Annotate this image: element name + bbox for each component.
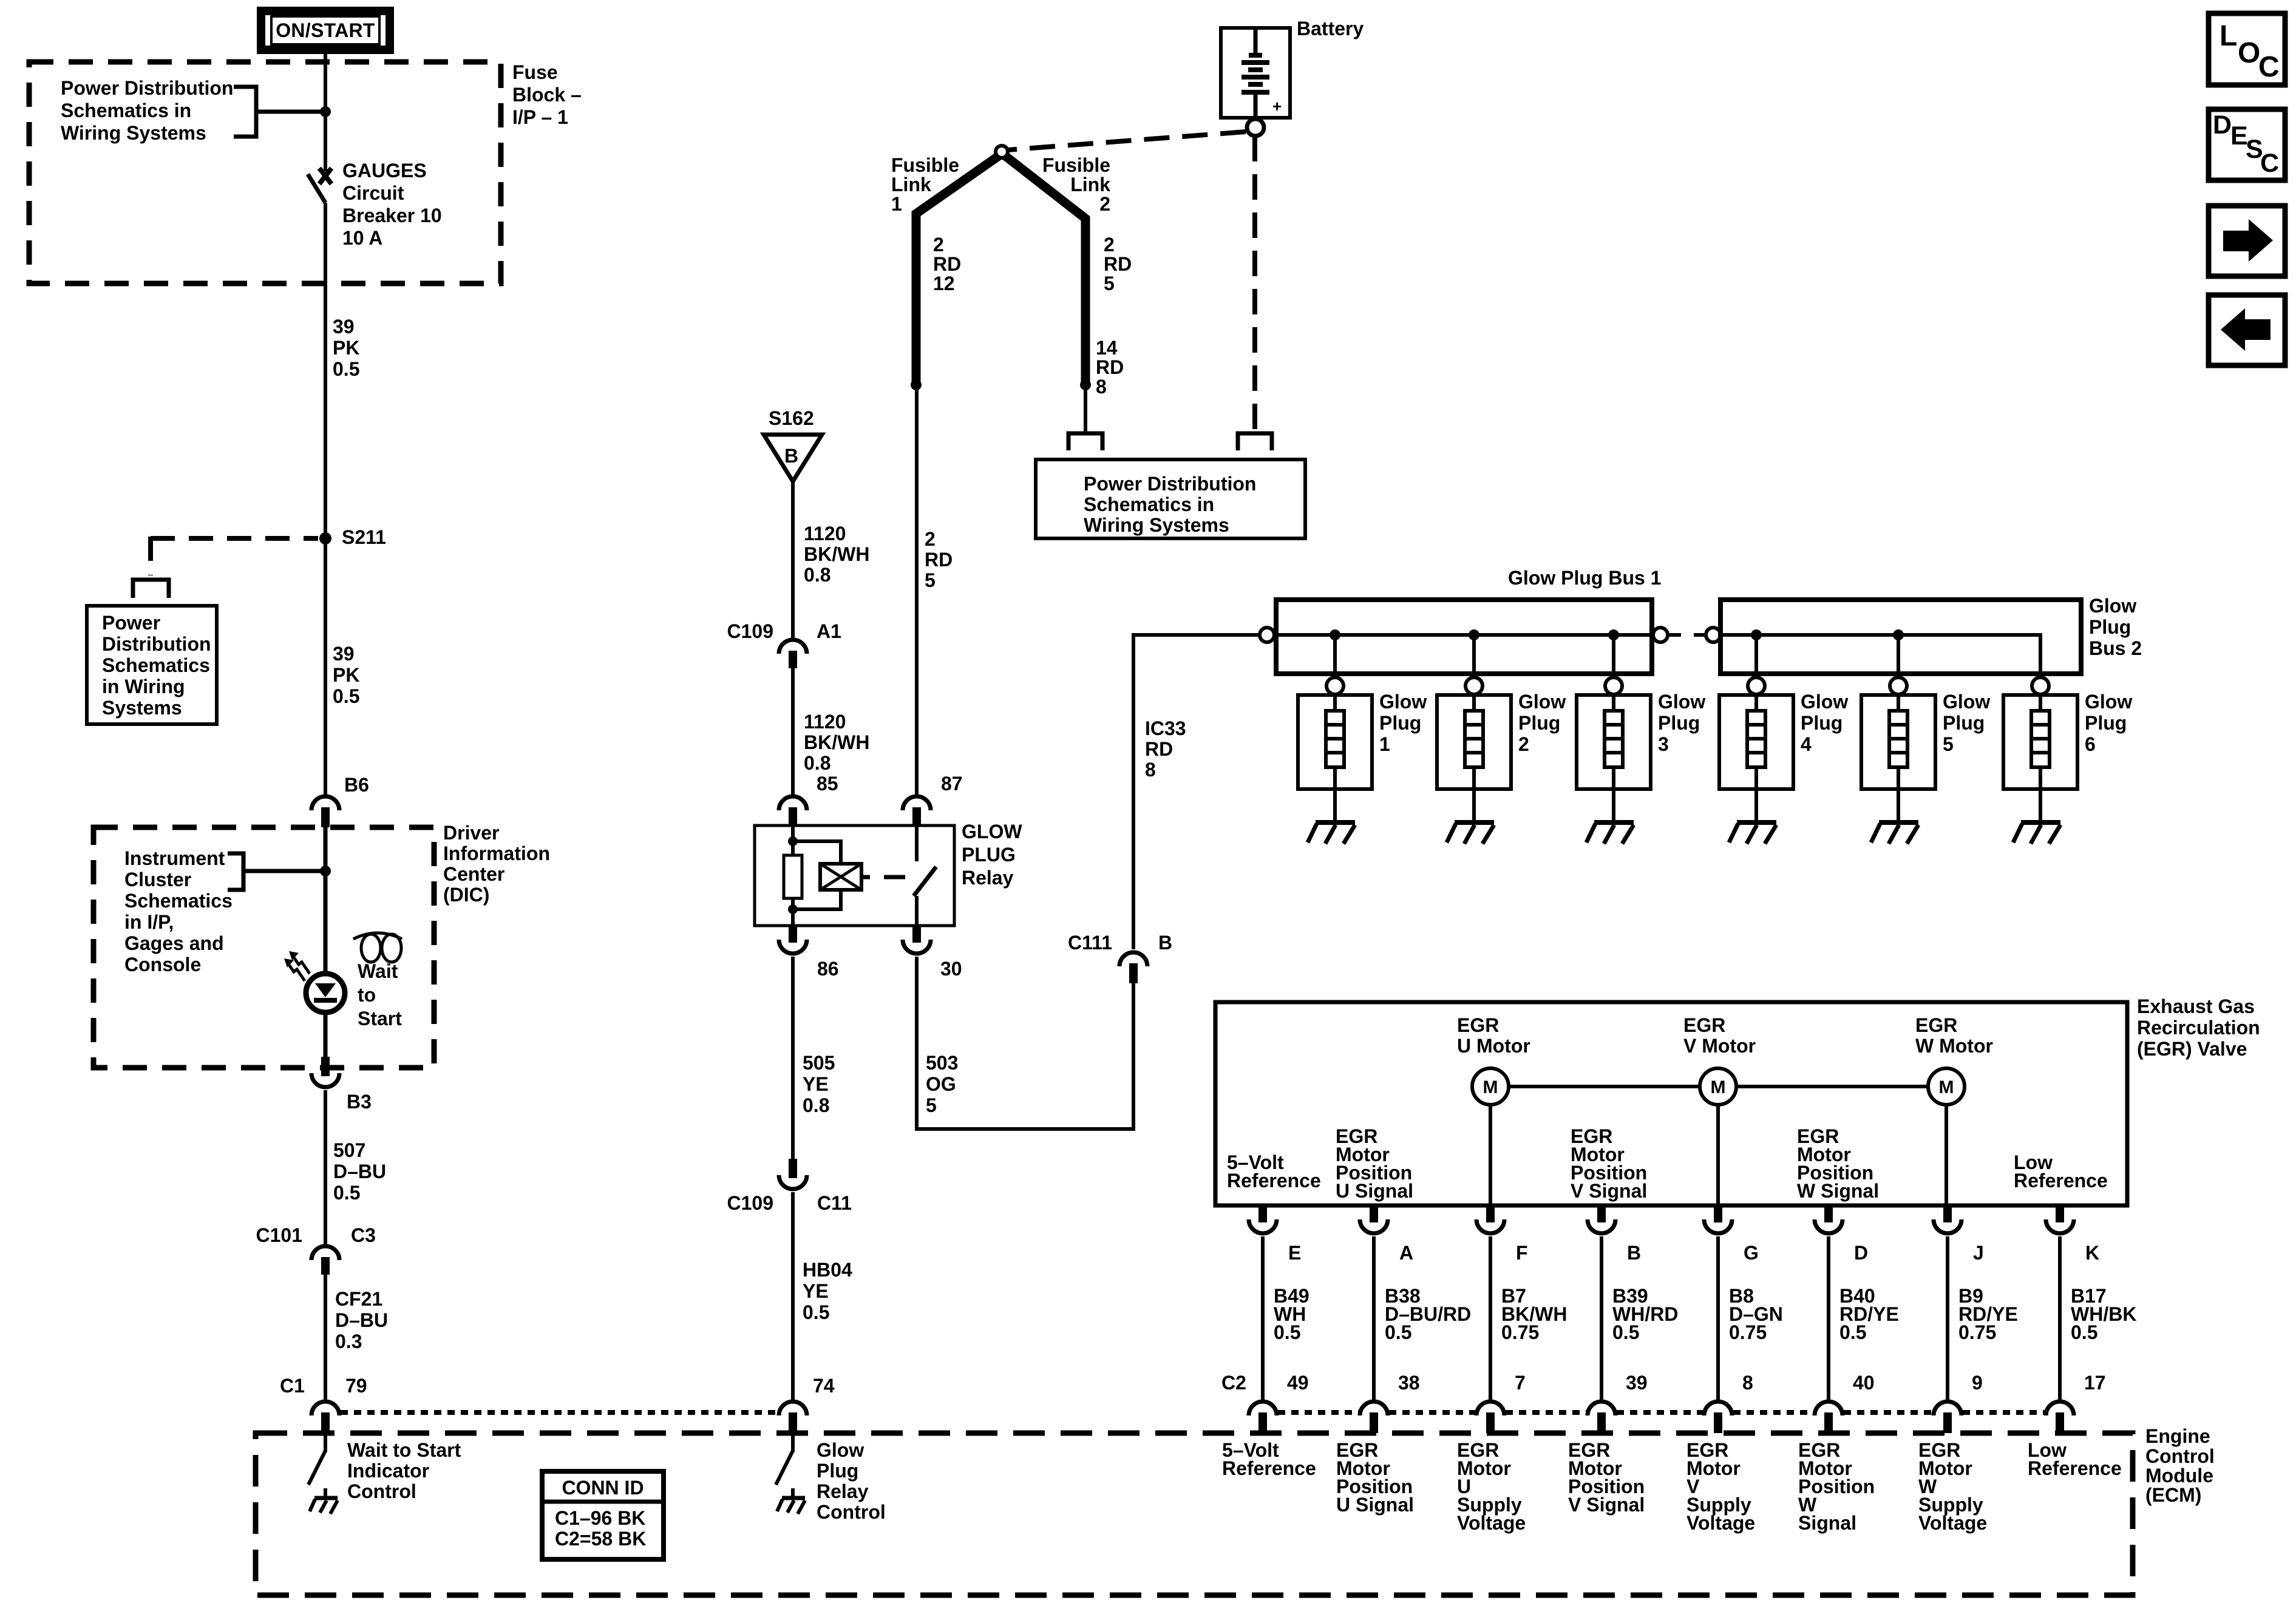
ground glow plug 2 (1447, 822, 1494, 844)
label EGR Motor Position W Signal (ECM) (1798, 1439, 1875, 1534)
wire glow plug 2 to ground (1472, 789, 1476, 821)
svg-text:EGR: EGR (1683, 1014, 1725, 1036)
svg-text:39: 39 (333, 643, 355, 665)
svg-text:Module: Module (2145, 1465, 2213, 1486)
svg-text:YE: YE (803, 1073, 829, 1095)
svg-text:V Signal: V Signal (1568, 1494, 1645, 1516)
connector B3 (DIC bottom pin) (311, 1057, 339, 1087)
svg-text:(EGR) Valve: (EGR) Valve (2137, 1038, 2247, 1060)
svg-text:Fusible: Fusible (891, 154, 959, 176)
svg-text:F: F (1516, 1242, 1528, 1264)
svg-text:D: D (2213, 110, 2232, 140)
label wire CF21 D-BU 0.3 (335, 1288, 388, 1352)
svg-text:YE: YE (803, 1280, 829, 1302)
label GLOW PLUG Relay (962, 821, 1022, 889)
svg-text:Control: Control (817, 1501, 886, 1523)
svg-text:V Signal: V Signal (1571, 1180, 1647, 1202)
svg-text:GAUGES: GAUGES (342, 160, 427, 181)
svg-text:Wait: Wait (358, 960, 398, 982)
EGR valve box (1215, 1002, 2127, 1205)
node bus 2 junction 4 (1751, 629, 1762, 640)
label Instrument Cluster Schematics in I/P, Gages and Console (124, 847, 233, 975)
node ON/START (ignition feed tag) (261, 11, 390, 50)
node bus 1 junction 3 (1608, 629, 1619, 640)
svg-text:E: E (1288, 1242, 1301, 1264)
svg-text:40: 40 (1853, 1372, 1875, 1394)
connector glow plug 6 ring (2032, 677, 2049, 694)
svg-text:Glow: Glow (2085, 691, 2132, 713)
svg-text:86: 86 (817, 958, 839, 980)
wire S162 to C109 (1120 BK/WH) (791, 480, 795, 638)
svg-text:B: B (1158, 932, 1172, 954)
connector ECM C2 pin 8 (1704, 1402, 1732, 1433)
svg-text:Glow: Glow (1801, 691, 1848, 713)
connector glow plug 2 ring (1466, 677, 1483, 694)
svg-text:(DIC): (DIC) (443, 884, 489, 906)
connector C101 / C3 (311, 1246, 339, 1275)
svg-text:4: 4 (1801, 733, 1812, 755)
wire EGR pin B to ECM (B39) (1600, 1236, 1603, 1400)
label wire B7 BK/WH 0.75 (1501, 1285, 1567, 1343)
label EGR Motor W Supply Voltage (ECM) (1918, 1439, 1987, 1534)
connector EGR pin D (1815, 1205, 1843, 1233)
svg-text:Schematics in: Schematics in (1084, 493, 1214, 515)
connector bus 1 right ring (1653, 628, 1668, 642)
label EGR Motor Position V Signal (EGR) (1571, 1125, 1647, 1202)
connector relay pin 86 (779, 924, 807, 954)
svg-text:C1: C1 (280, 1375, 305, 1397)
connector glow plug 1 ring (1326, 677, 1343, 694)
right arrow box (2209, 206, 2285, 276)
wire relay 86 to C109 C11 (505 YE) (791, 957, 795, 1159)
connector ECM C2 pin 17 (2046, 1402, 2074, 1433)
connector glow plug 5 ring (1890, 677, 1907, 694)
svg-text:Fuse: Fuse (512, 61, 558, 83)
svg-text:Link: Link (891, 174, 931, 195)
svg-text:Wiring Systems: Wiring Systems (1084, 514, 1229, 536)
svg-text:Wait to Start: Wait to Start (347, 1439, 461, 1461)
label wire 507 D-BU 0.5 (333, 1139, 386, 1204)
svg-text:M: M (1483, 1077, 1498, 1097)
label Fusible Link 2 (1042, 154, 1110, 215)
label wire 1120 BK/WH 0.8 (lower) (804, 711, 869, 774)
svg-text:0.8: 0.8 (804, 564, 830, 586)
switch Glow Plug Relay Control driver (776, 1433, 793, 1485)
svg-text:8: 8 (1145, 759, 1156, 781)
svg-text:17: 17 (2084, 1372, 2106, 1394)
relay K1 GLOW PLUG Relay box (755, 825, 954, 926)
svg-text:V Motor: V Motor (1683, 1035, 1756, 1057)
ground glow plug 5 (1871, 822, 1918, 844)
motor EGR U (1472, 1068, 1509, 1105)
fuse block dashed box (29, 62, 501, 283)
svg-text:0.8: 0.8 (803, 1094, 829, 1116)
switch Wait to Start Indicator Control driver (308, 1433, 325, 1485)
connector ECM C1 pin 74 (779, 1402, 807, 1433)
label Glow Plug 3 (1658, 691, 1705, 755)
wire breaker down to B6 (circuit 39 PK) (324, 203, 327, 795)
svg-text:I/P – 1: I/P – 1 (512, 106, 568, 128)
svg-text:Control: Control (2145, 1445, 2215, 1467)
svg-text:79: 79 (345, 1375, 367, 1397)
svg-text:PK: PK (333, 337, 359, 359)
svg-text:IC33: IC33 (1145, 717, 1186, 739)
wire dashed branch from S211 (151, 537, 318, 575)
wire relay actuating dash (884, 875, 905, 880)
connector ECM C2 pin 38 (1360, 1402, 1388, 1433)
svg-text:Block –: Block – (512, 84, 582, 106)
svg-text:PLUG: PLUG (962, 844, 1016, 866)
wire motor link (1490, 1085, 1946, 1088)
wire dashed battery feed down (1252, 136, 1257, 432)
svg-text:M: M (1939, 1077, 1954, 1097)
svg-text:0.5: 0.5 (333, 685, 359, 707)
circuit breaker GAUGES 10 A (308, 168, 331, 203)
svg-text:Plug: Plug (2085, 712, 2127, 734)
svg-text:B: B (784, 445, 798, 467)
svg-text:Gages and: Gages and (124, 932, 224, 954)
wire link2 to power distribution (14 RD 8) (1084, 385, 1087, 432)
svg-text:1120: 1120 (804, 711, 846, 733)
fusible link 1 (916, 156, 999, 383)
node relay junction top (788, 836, 798, 846)
label EGR Motor Position V Signal (ECM) (1568, 1439, 1645, 1516)
label EGR Motor Position U Signal (ECM) (1336, 1439, 1414, 1516)
connector EGR pin K (2046, 1205, 2074, 1233)
motor EGR W (1928, 1068, 1965, 1105)
svg-text:Cluster: Cluster (124, 869, 191, 890)
ground glow plug 4 (1729, 822, 1776, 844)
battery (1221, 28, 1290, 118)
svg-text:2: 2 (925, 528, 936, 550)
svg-text:503: 503 (926, 1052, 958, 1074)
svg-text:Reference: Reference (2014, 1170, 2108, 1192)
connector battery positive terminal ring (1247, 119, 1264, 136)
svg-text:Schematics in: Schematics in (61, 100, 191, 121)
wire bus drop to glow plug 2 (1472, 635, 1476, 677)
svg-text:Exhaust Gas: Exhaust Gas (2137, 995, 2255, 1017)
label wire B8 D&#8211;GN 0.75 (1729, 1285, 1783, 1343)
svg-text:+: + (1272, 97, 1282, 115)
wire IC33 RD to glow plug bus (1133, 635, 1258, 949)
label Glow Plug 4 (1801, 691, 1848, 755)
label EGR V Motor (1683, 1014, 1756, 1057)
svg-text:A1: A1 (817, 620, 841, 642)
svg-text:B3: B3 (347, 1091, 372, 1113)
motor EGR V (1700, 1068, 1736, 1105)
label wire HB04 YE 0.5 (803, 1259, 852, 1323)
glow plug 3 (1577, 694, 1651, 789)
svg-text:5: 5 (1943, 733, 1954, 755)
svg-text:0.5: 0.5 (333, 1182, 360, 1204)
svg-text:Plug: Plug (1518, 712, 1560, 734)
wire relay 30 down and over (503 OG) (917, 957, 1133, 1129)
svg-text:Glow: Glow (1379, 691, 1427, 713)
svg-text:in Wiring: in Wiring (102, 676, 185, 697)
svg-text:Schematics: Schematics (102, 654, 210, 676)
wire EGR pin F to ECM (B7) (1489, 1236, 1492, 1400)
svg-text:Glow: Glow (2089, 595, 2136, 617)
svg-text:C: C (2258, 51, 2280, 83)
glow plug bus 1 box (1276, 600, 1652, 674)
svg-text:74: 74 (813, 1375, 835, 1397)
svg-text:Center: Center (443, 863, 504, 885)
svg-text:Plug: Plug (1379, 712, 1421, 734)
svg-text:Indicator: Indicator (347, 1460, 429, 1482)
node bus 1 junction 2 (1469, 629, 1479, 640)
svg-text:8: 8 (1096, 376, 1107, 398)
label wire B9 RD/YE 0.75 (1958, 1285, 2018, 1343)
wire DIC internal upper (324, 827, 328, 974)
glow plug 1 (1298, 694, 1372, 789)
label EGR Motor Position W Signal (EGR) (1797, 1125, 1879, 1202)
node Driver Information Center dashed box (93, 827, 434, 1068)
wire bus link dashes (1668, 633, 1706, 637)
label wire B40 RD/YE 0.5 (1839, 1285, 1899, 1343)
wire glow plug 3 to ground (1612, 789, 1615, 821)
wire bus 2 (1720, 635, 2040, 674)
label wire 1120 BK/WH 0.8 (upper) (804, 523, 869, 586)
label Power Distribution Schematics in Wiring Systems (fuse block) (61, 77, 233, 144)
label wire 2 RD 12 (933, 234, 961, 294)
node splice link1 (911, 379, 922, 390)
label wire IC33 RD 8 (1145, 717, 1186, 781)
svg-text:RD: RD (1145, 738, 1173, 760)
wire EGR pin A to ECM (B38) (1372, 1236, 1376, 1400)
glow plug 4 (1719, 694, 1793, 789)
connector relay pin 30 (903, 924, 931, 954)
svg-text:2: 2 (933, 234, 944, 256)
svg-text:1120: 1120 (804, 523, 846, 544)
svg-text:Fusible: Fusible (1042, 154, 1110, 176)
node Power Distribution Schematics box (left) (87, 606, 217, 724)
svg-text:B: B (1627, 1242, 1641, 1264)
svg-text:30: 30 (940, 958, 962, 980)
svg-text:Relay: Relay (962, 867, 1014, 889)
label EGR Motor Position U Signal (EGR) (1336, 1125, 1413, 1202)
svg-text:W Signal: W Signal (1797, 1180, 1879, 1202)
svg-text:Plug: Plug (1658, 712, 1700, 734)
relay coil (820, 864, 870, 890)
svg-text:B6: B6 (344, 774, 369, 796)
node S162 splice triangle (764, 407, 822, 481)
CONN ID table (542, 1471, 664, 1559)
svg-text:Instrument: Instrument (124, 847, 225, 869)
connector EGR pin F (1476, 1205, 1504, 1233)
svg-text:HB04: HB04 (803, 1259, 852, 1281)
connector EGR pin E (1249, 1205, 1277, 1233)
wire C11 to ECM 74 (HB04 YE) (791, 1192, 795, 1400)
wire dotted connector line C1 (341, 1410, 778, 1415)
connector bus 2 left ring (1706, 628, 1720, 642)
svg-text:1: 1 (1379, 733, 1390, 755)
connector ECM C1 pin 79 (311, 1402, 339, 1433)
svg-text:C11: C11 (817, 1192, 852, 1214)
svg-text:10 A: 10 A (342, 227, 382, 249)
label wire 503 OG 5 (926, 1052, 958, 1116)
label Driver Information Center (DIC) (443, 822, 550, 906)
svg-text:J: J (1973, 1242, 1984, 1264)
svg-text:6: 6 (2085, 733, 2096, 755)
label wire 2 RD 5 (to relay) (925, 528, 953, 591)
light arrows of LED (284, 951, 310, 981)
label EGR W Motor (1915, 1014, 1993, 1057)
svg-text:C2: C2 (1221, 1372, 1246, 1394)
wire U motor lead (1489, 1105, 1492, 1205)
label Low Reference (ECM) (2028, 1439, 2122, 1479)
svg-text:Power Distribution: Power Distribution (61, 77, 233, 99)
label wire B39 WH/RD 0.5 (1612, 1285, 1678, 1343)
svg-text:Plug: Plug (817, 1460, 858, 1482)
label 5-Volt Reference (EGR) (1227, 1151, 1321, 1192)
wire dashed battery to fusible links (1008, 132, 1246, 150)
svg-text:C109: C109 (727, 620, 774, 642)
connector staple to power distribution (link2) (1068, 433, 1102, 450)
svg-text:Breaker 10: Breaker 10 (342, 205, 442, 226)
label Fusible Link 1 (891, 154, 959, 215)
glow plug bus 2 box (1720, 600, 2081, 674)
svg-text:0.5: 0.5 (2071, 1321, 2097, 1343)
ground Glow Plug Relay driver (777, 1488, 805, 1514)
svg-text:0.5: 0.5 (803, 1301, 829, 1323)
ground glow plug 3 (1586, 822, 1634, 844)
svg-text:12: 12 (933, 273, 955, 294)
fusible link 2 (1005, 156, 1085, 383)
svg-text:Voltage: Voltage (1457, 1512, 1526, 1534)
node fusible link junction ring (996, 146, 1008, 158)
svg-text:C2=58 BK: C2=58 BK (555, 1528, 646, 1550)
connector ECM C2 pin 49 (1249, 1402, 1277, 1433)
label wire 39 PK 0.5 (lower) (333, 643, 359, 707)
node splice link2 (1080, 379, 1091, 390)
connector staple to power distribution box (left) (133, 580, 169, 598)
svg-text:2: 2 (1104, 234, 1115, 256)
svg-text:S211: S211 (342, 526, 386, 548)
wire bus drop to glow plug 5 (1897, 635, 1900, 677)
svg-text:2: 2 (1099, 193, 1110, 215)
svg-text:85: 85 (817, 773, 838, 795)
label Glow Plug Relay Control (817, 1439, 886, 1523)
svg-text:Reference: Reference (1227, 1170, 1321, 1192)
wire dotted connector line C2 (1278, 1410, 2045, 1415)
label Glow Plug 6 (2085, 691, 2132, 755)
label wire B49 WH 0.5 (1274, 1285, 1309, 1343)
wire EGR pin D to ECM (B40) (1827, 1236, 1830, 1400)
connector bus 1 left ring (1260, 628, 1274, 642)
svg-text:0.75: 0.75 (1958, 1321, 1996, 1343)
svg-text:C: C (2260, 149, 2279, 178)
connector C109 / C11 (779, 1159, 807, 1189)
svg-text:W Motor: W Motor (1915, 1035, 1993, 1057)
svg-text:Link: Link (1070, 174, 1110, 195)
svg-text:Glow: Glow (1518, 691, 1566, 713)
svg-text:U Signal: U Signal (1336, 1494, 1414, 1516)
svg-text:OG: OG (926, 1073, 956, 1095)
connector staple to power distribution (battery) (1238, 433, 1272, 450)
svg-text:CONN ID: CONN ID (562, 1477, 644, 1499)
svg-text:RD: RD (1104, 253, 1132, 275)
svg-text:Voltage: Voltage (1918, 1512, 1987, 1534)
wire bus drop to glow plug 4 (1754, 635, 1758, 677)
node bus 1 junction 1 (1330, 629, 1340, 640)
label Glow Plug 2 (1518, 691, 1566, 755)
label Engine Control Module (ECM) (2145, 1425, 2215, 1506)
svg-text:C109: C109 (727, 1192, 774, 1214)
left arrow box (2209, 295, 2285, 365)
svg-text:Console: Console (124, 954, 201, 975)
wire glow plug 4 to ground (1754, 789, 1758, 821)
svg-text:0.5: 0.5 (1839, 1321, 1866, 1343)
wire glow plug 5 to ground (1897, 789, 1900, 821)
connector B6 (DIC pin) (311, 796, 339, 827)
svg-text:Plug: Plug (1801, 712, 1843, 734)
wire EGR pin J to ECM (B9) (1946, 1236, 1949, 1400)
svg-text:Bus 2: Bus 2 (2089, 637, 2142, 659)
wire bus drop to glow plug 1 (1333, 635, 1337, 677)
label Glow Plug Bus 2 (2089, 595, 2142, 659)
ground glow plug 1 (1308, 822, 1355, 844)
svg-text:Glow Plug Bus 1: Glow Plug Bus 1 (1508, 567, 1661, 589)
svg-text:Start: Start (358, 1008, 402, 1029)
svg-text:Power Distribution: Power Distribution (1084, 473, 1256, 495)
svg-text:0.5: 0.5 (1385, 1321, 1411, 1343)
svg-text:D–BU: D–BU (335, 1309, 388, 1331)
svg-text:Voltage: Voltage (1686, 1512, 1755, 1534)
bracket instrument cluster reference (228, 853, 324, 890)
svg-text:14: 14 (1096, 337, 1118, 359)
ground glow plug 6 (2013, 822, 2060, 844)
Engine Control Module dashed box (256, 1433, 2133, 1595)
connector ECM C2 pin 7 (1476, 1402, 1504, 1433)
svg-text:M: M (1711, 1077, 1726, 1097)
label EGR U Motor (1457, 1014, 1530, 1057)
svg-text:O: O (2238, 37, 2260, 69)
label DESC box (2209, 109, 2285, 180)
connector ECM C2 pin 39 (1588, 1402, 1615, 1433)
svg-text:G: G (1744, 1242, 1759, 1264)
svg-text:RD: RD (933, 253, 961, 275)
svg-text:3: 3 (1658, 733, 1669, 755)
svg-text:0.75: 0.75 (1729, 1321, 1767, 1343)
svg-text:0.5: 0.5 (333, 358, 359, 380)
svg-text:505: 505 (803, 1052, 835, 1074)
label LOC box (2209, 13, 2285, 85)
connector glow plug 3 ring (1605, 677, 1622, 694)
svg-text:9: 9 (1972, 1372, 1983, 1394)
svg-text:0.75: 0.75 (1501, 1321, 1539, 1343)
wire 507 D-BU (324, 1090, 327, 1244)
wire bus 1 (1274, 633, 1652, 637)
svg-text:7: 7 (1515, 1372, 1526, 1394)
label Glow Plug 5 (1943, 691, 1990, 755)
svg-text:PK: PK (333, 664, 359, 686)
connector glow plug 4 ring (1748, 677, 1765, 694)
label wire 39 PK 0.5 (upper) (333, 316, 359, 380)
wire glow plug 1 to ground (1333, 789, 1337, 821)
svg-text:ON/START: ON/START (276, 19, 375, 41)
svg-text:K: K (2085, 1242, 2099, 1264)
label Exhaust Gas Recirculation (EGR) Valve (2137, 995, 2260, 1060)
label GAUGES Circuit Breaker 10 10A (342, 160, 442, 249)
wire glow plug 6 to ground (2039, 789, 2042, 821)
connector ECM C2 pin 9 (1934, 1402, 1961, 1433)
wire bus drop to glow plug 3 (1612, 635, 1615, 677)
relay switch contact (914, 825, 936, 926)
svg-text:C111: C111 (1068, 932, 1112, 954)
svg-text:Distribution: Distribution (102, 633, 211, 655)
svg-text:C1–96 BK: C1–96 BK (555, 1507, 645, 1529)
wire ON/START to breaker (324, 50, 327, 171)
